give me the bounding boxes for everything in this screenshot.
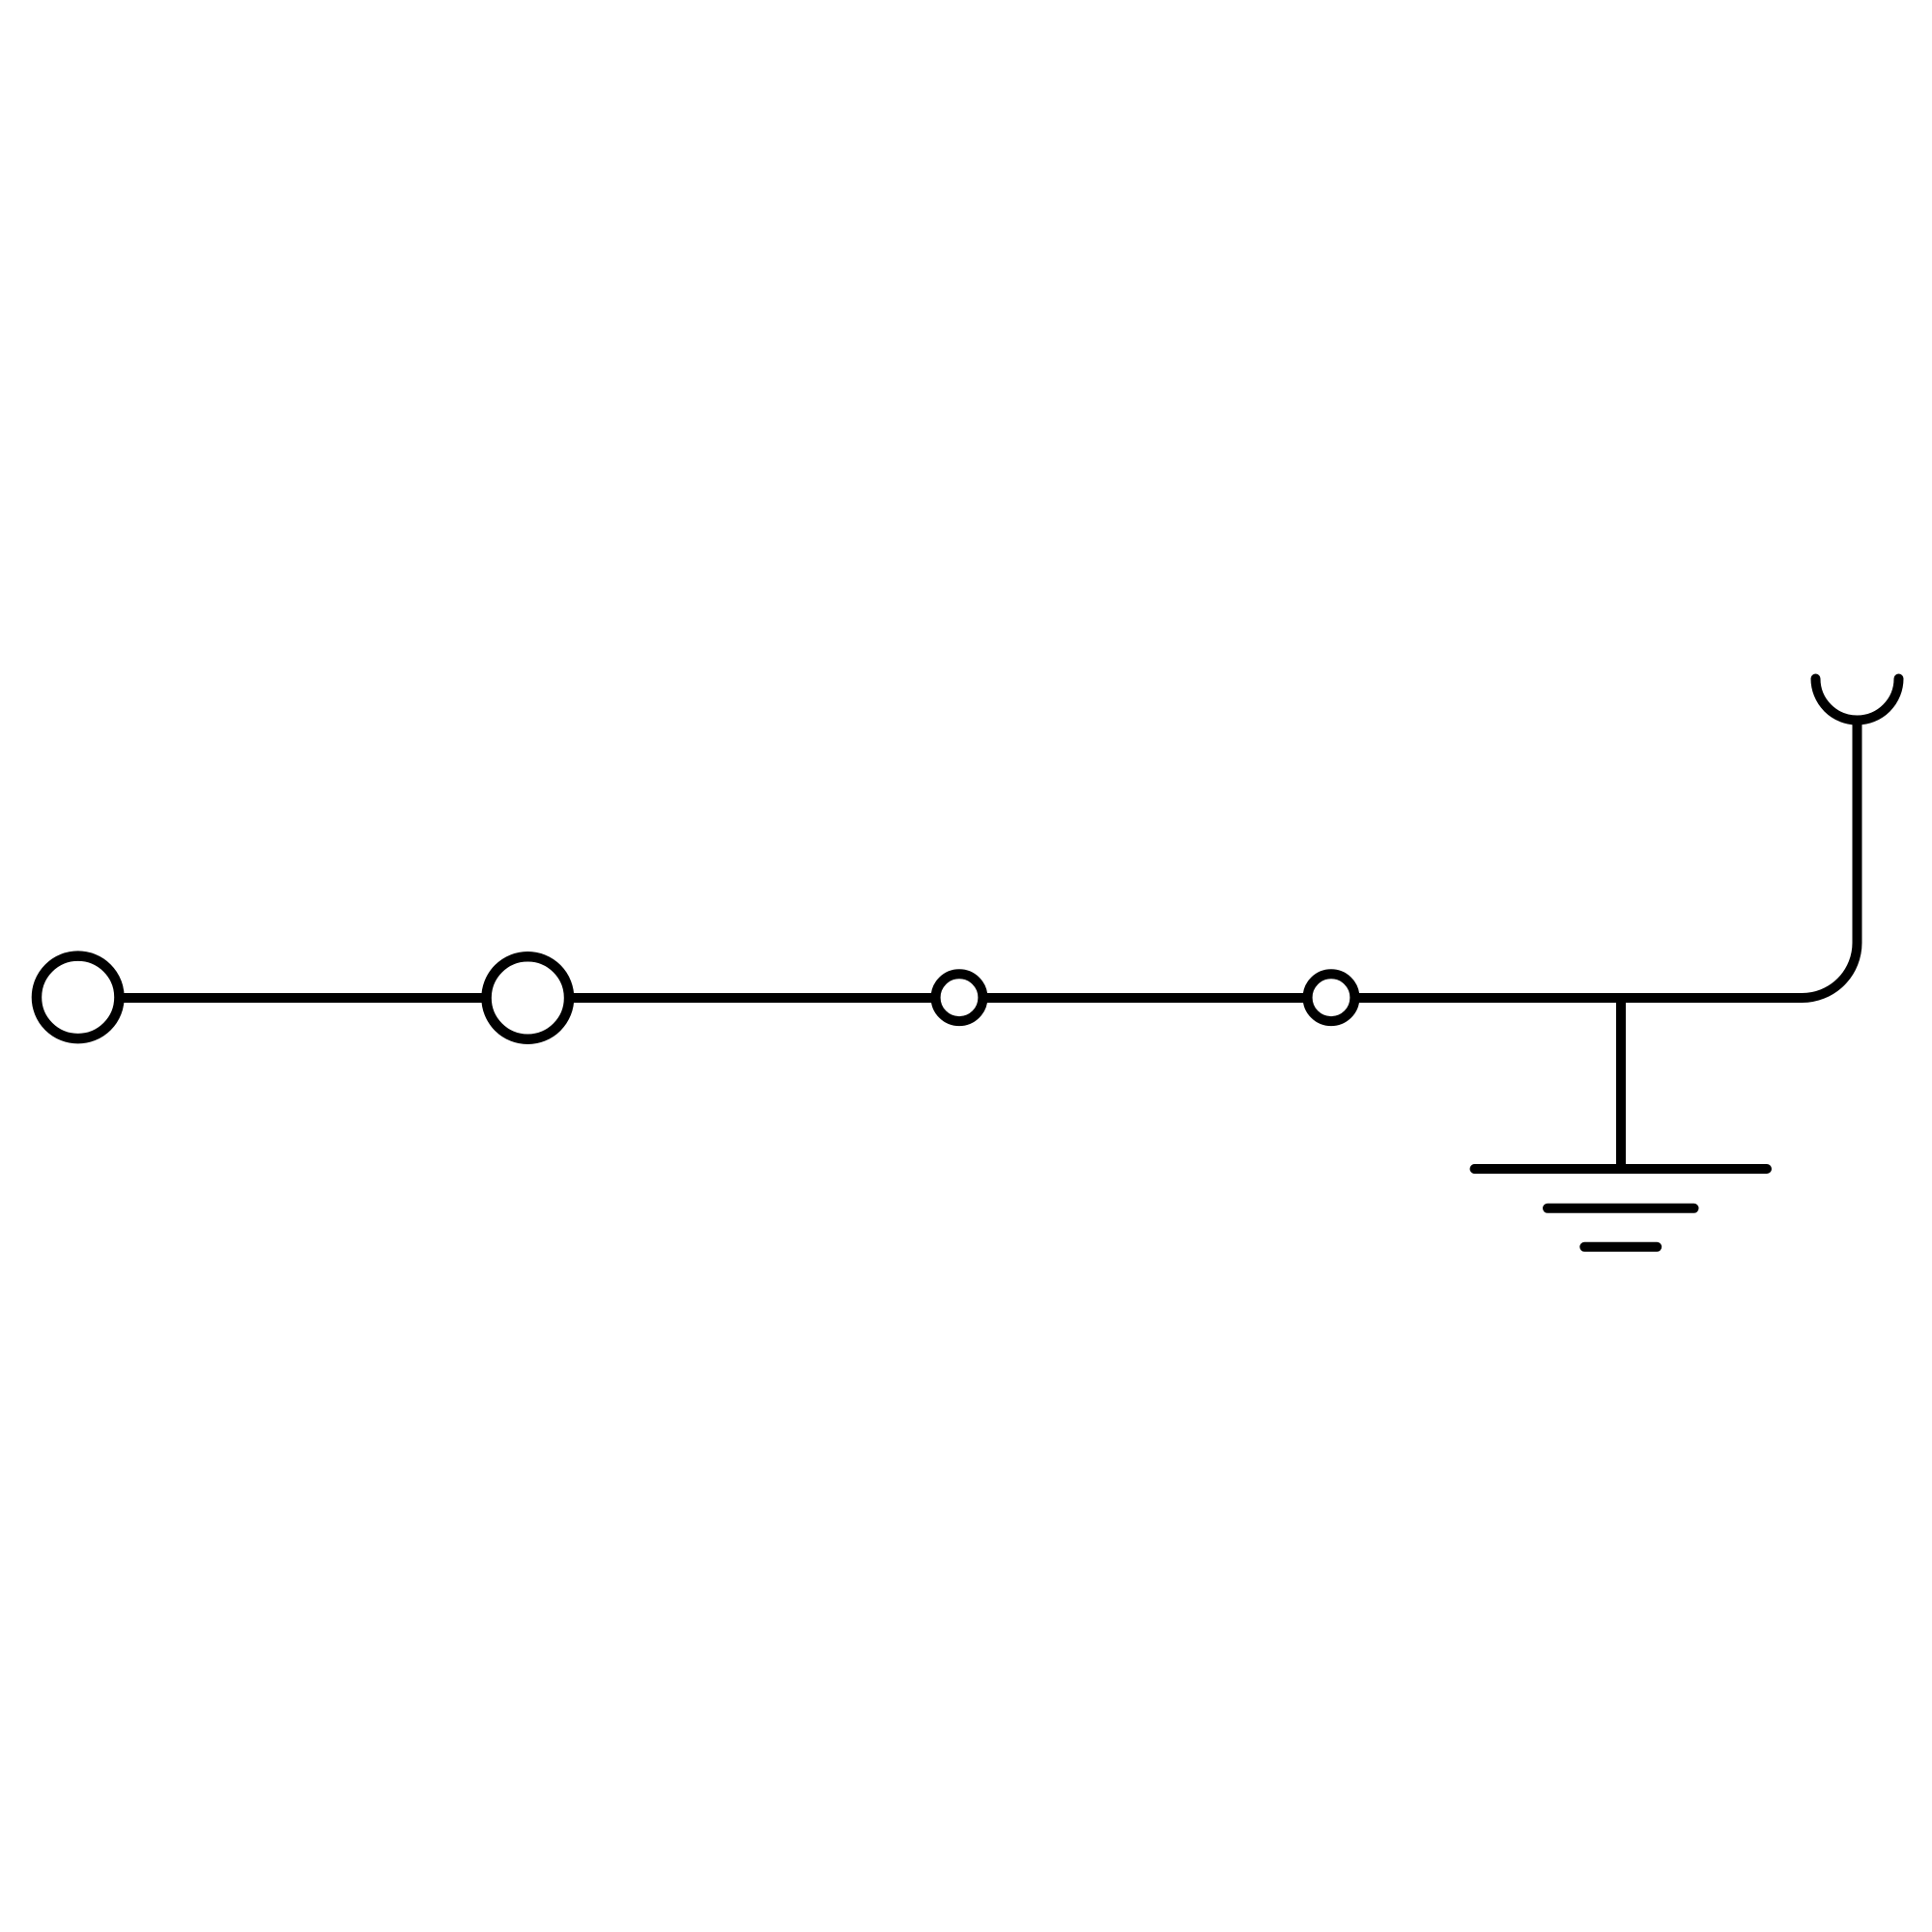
ground: earth symbol bar 1 bbox=[1475, 1164, 1768, 1174]
ground: earth symbol bar 3 bbox=[1584, 1242, 1657, 1252]
terminal 1: large clamp point circle (left) bbox=[37, 956, 120, 1039]
node 3: small test point circle bbox=[936, 974, 983, 1021]
ground: earth symbol bar 2 bbox=[1548, 1204, 1694, 1213]
wire: ground stub (vertical from bus to earth symbol) bbox=[1616, 995, 1626, 1169]
node 4: small test point circle bbox=[1308, 974, 1355, 1021]
wire: main horizontal conductor with rounded bend up to plug contact bbox=[78, 721, 1858, 998]
terminal 2: large clamp point circle bbox=[487, 956, 570, 1039]
plug contact (fork / female connector symbol) top right bbox=[1816, 679, 1899, 721]
